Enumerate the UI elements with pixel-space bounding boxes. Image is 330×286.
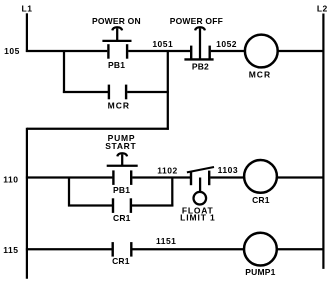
contact PB1 (NO) rung 105 <box>108 44 127 59</box>
wire branch110 left horizontal <box>68 204 112 206</box>
svg-text:115: 115 <box>3 245 18 255</box>
svg-text:110: 110 <box>3 175 18 185</box>
rail L1 upper <box>26 13 28 52</box>
pushbutton actuator PB1 rung110 <box>107 153 138 166</box>
float switch stem <box>199 178 201 193</box>
svg-text:POWER OFF: POWER OFF <box>170 16 223 26</box>
wire rung110 left <box>26 176 113 178</box>
wire branch105 right horizontal <box>127 91 169 93</box>
svg-text:L2: L2 <box>317 4 328 14</box>
svg-text:PB2: PB2 <box>192 61 209 71</box>
svg-text:PB1: PB1 <box>113 185 130 195</box>
wire rung105 mid (node 1051) <box>128 50 190 52</box>
svg-text:LIMIT 1: LIMIT 1 <box>180 213 216 223</box>
rail L2 <box>322 14 324 269</box>
wire rung105 to L2 <box>278 50 325 52</box>
wire rung110 mid (node 1102) <box>132 176 190 178</box>
coil PUMP1 <box>244 233 277 266</box>
wire rung105 right of PB2 <box>211 50 245 52</box>
pushbutton actuator PB1 <box>102 27 131 41</box>
wire node1051 drop <box>167 50 169 130</box>
svg-text:1102: 1102 <box>157 165 177 175</box>
wire rung110 right of float <box>210 176 245 178</box>
svg-text:1052: 1052 <box>216 39 237 49</box>
wire branch110 left vertical <box>68 177 70 207</box>
svg-text:MCR: MCR <box>108 101 130 111</box>
contact CR1 (NO) rung 115 <box>113 242 132 257</box>
coil MCR <box>245 35 278 68</box>
rail L1 lower <box>26 128 28 279</box>
svg-text:CR1: CR1 <box>112 256 130 266</box>
wire rung105 left <box>26 50 107 52</box>
contact FLOAT LIMIT 1 (NC float switch) <box>187 167 214 185</box>
svg-text:CR1: CR1 <box>113 213 131 223</box>
wire rung115 left <box>26 248 112 250</box>
pushbutton actuator PB2 <box>195 27 205 59</box>
svg-text:1151: 1151 <box>156 236 176 246</box>
svg-text:CR1: CR1 <box>252 195 270 205</box>
wire branch110 right horizontal <box>132 204 173 206</box>
svg-text:PB1: PB1 <box>108 60 125 70</box>
wire node1102 drop <box>171 177 173 207</box>
svg-text:1103: 1103 <box>218 165 238 175</box>
coil CR1 <box>244 160 277 193</box>
svg-text:PUMP1: PUMP1 <box>245 267 275 277</box>
contact CR1 (NO seal-in) rung110 <box>113 198 131 213</box>
contact PB2 (NC pushbutton) <box>184 46 213 60</box>
wire rung115 to L2 <box>277 248 325 250</box>
wire branch105 left vertical <box>63 50 65 93</box>
svg-text:START: START <box>105 141 136 151</box>
wire sub-feed horizontal <box>27 128 169 130</box>
contact MCR (NO seal-in) <box>109 85 126 100</box>
wire branch105 left horizontal <box>63 91 109 93</box>
svg-text:MCR: MCR <box>249 69 271 79</box>
wire rung110 to L2 <box>277 176 324 178</box>
contact PB1 (NO) rung 110 <box>113 170 131 185</box>
svg-text:L1: L1 <box>22 4 33 14</box>
wire rung115 mid <box>132 248 244 250</box>
svg-text:POWER ON: POWER ON <box>92 16 141 26</box>
svg-text:105: 105 <box>4 46 20 56</box>
svg-text:1051: 1051 <box>152 39 173 49</box>
float switch ball <box>194 192 207 205</box>
